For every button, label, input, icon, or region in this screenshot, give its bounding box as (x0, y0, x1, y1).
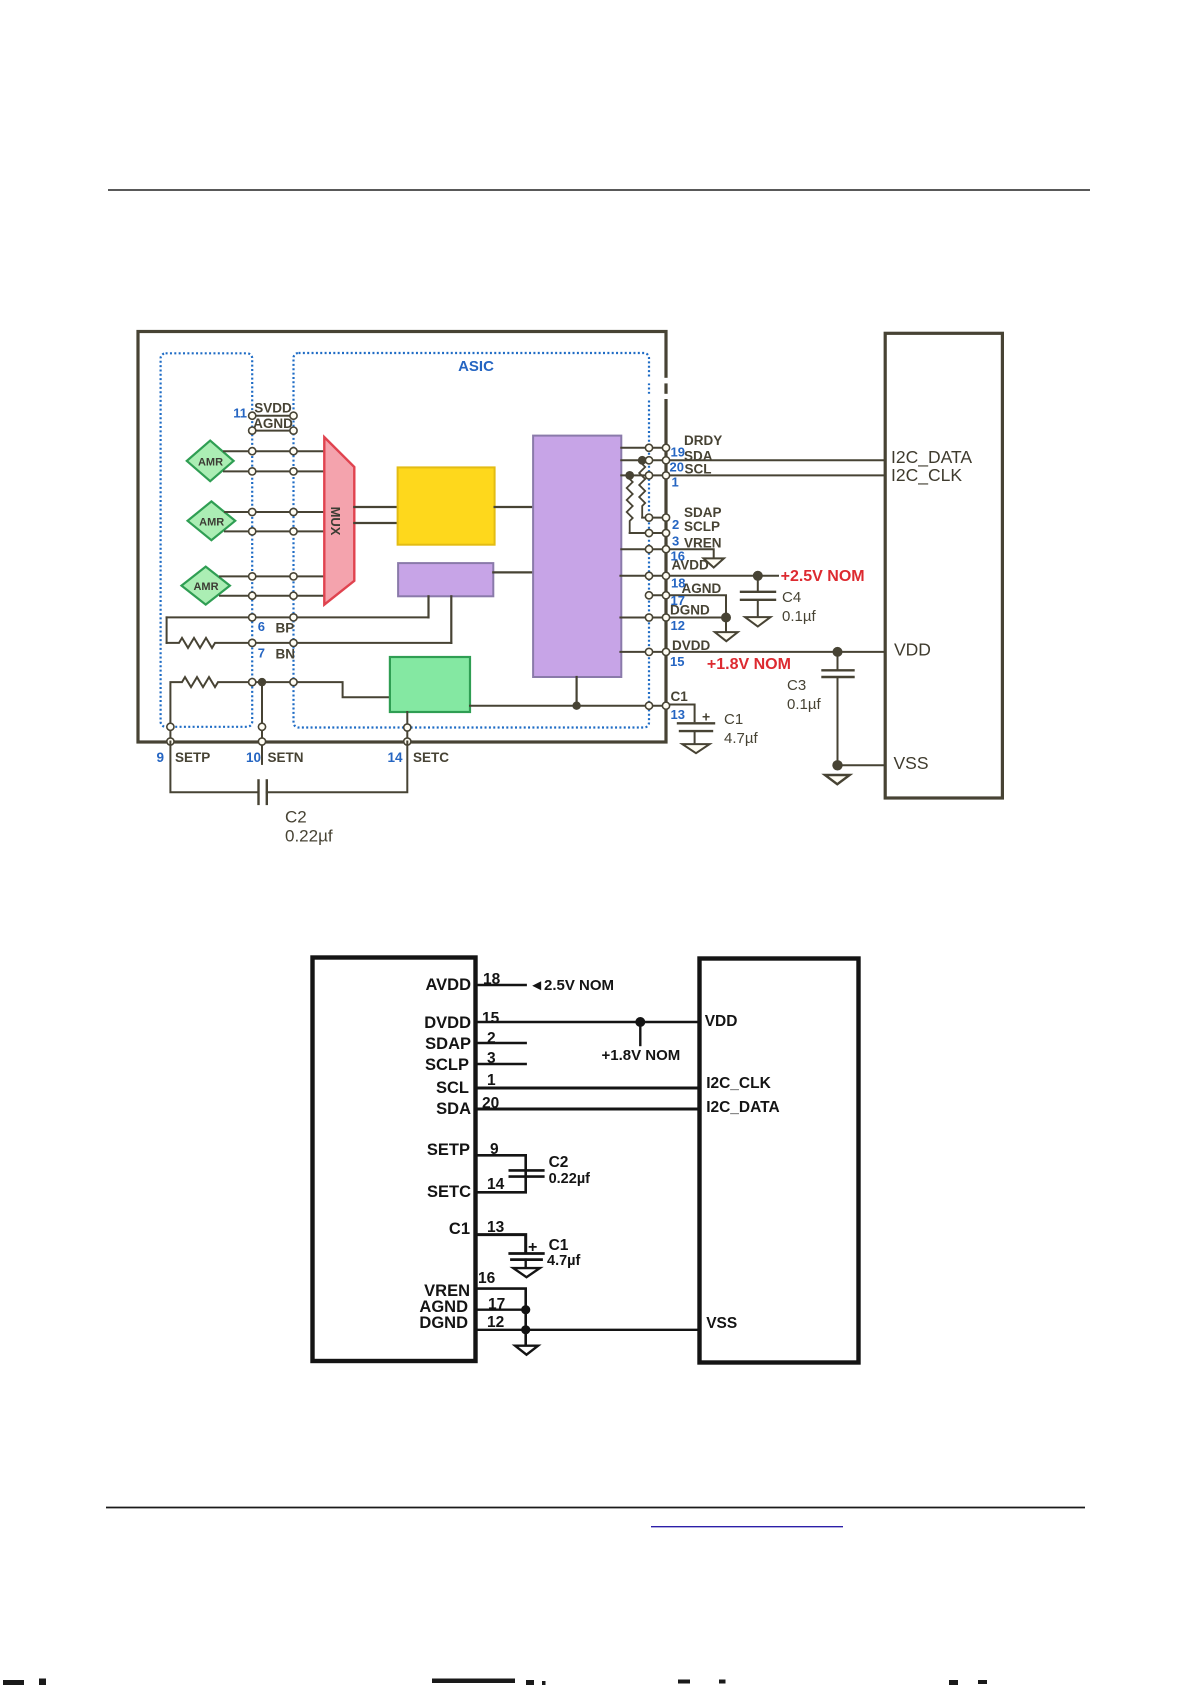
ground symbol C1 (513, 1268, 540, 1277)
bottom horizontal rule (106, 1507, 1085, 1509)
svg-text:16: 16 (671, 549, 685, 564)
svg-text:1: 1 (672, 475, 679, 490)
junction circles on SET lines (167, 679, 297, 746)
wire green block to SETC pin (406, 712, 408, 742)
svg-text:1: 1 (487, 1072, 496, 1089)
wire VREN pin 16 (476, 1289, 526, 1346)
sensor block dashed box (161, 353, 253, 727)
U1 pin number labels (478, 971, 505, 1331)
svg-text:AGND: AGND (682, 581, 722, 596)
wire DVDD to VDD (620, 651, 885, 653)
svg-text:3: 3 (487, 1050, 496, 1067)
top horizontal rule (108, 189, 1090, 191)
svg-text:18: 18 (483, 971, 501, 988)
wire SDA pin 20 to I2C_DATA (476, 1108, 700, 1111)
capacitor C2 plates (510, 1169, 544, 1172)
svg-text:I2C_DATA: I2C_DATA (706, 1099, 780, 1116)
svg-text:I2C_CLK: I2C_CLK (706, 1075, 771, 1092)
wire SDAP (642, 517, 666, 519)
svg-text:0.22µf: 0.22µf (549, 1171, 591, 1187)
wires MUX to signal-processing block (354, 506, 397, 508)
svg-text:14: 14 (387, 750, 403, 765)
ground symbol C1 (682, 744, 709, 753)
svg-text:VDD: VDD (705, 1013, 738, 1030)
capacitor C1 plates (510, 1252, 544, 1255)
junction circles on right pin column (645, 444, 669, 709)
AMR sensor 2 (188, 501, 236, 540)
svg-text:DVDD: DVDD (424, 1014, 471, 1032)
svg-text:AMR: AMR (198, 456, 223, 468)
svg-text:16: 16 (478, 1270, 496, 1287)
ground symbol VREN (704, 558, 724, 567)
svg-text:C1: C1 (724, 711, 743, 728)
svg-text:12: 12 (487, 1314, 504, 1331)
wire DRDY (621, 447, 666, 449)
svg-text:SETP: SETP (175, 750, 210, 765)
right pin number labels (670, 445, 686, 723)
svg-text:14: 14 (487, 1176, 505, 1193)
svg-text:SDAP: SDAP (425, 1035, 471, 1053)
svg-text:MUX: MUX (328, 507, 343, 536)
AMR sensor 3 (182, 567, 230, 605)
right pin name labels (670, 433, 722, 704)
svg-text:18: 18 (671, 576, 685, 591)
wire BN line with resistor (167, 638, 452, 648)
svg-text:DVDD: DVDD (672, 638, 711, 653)
svg-text:2: 2 (487, 1030, 496, 1047)
svg-text:SETC: SETC (413, 750, 449, 765)
svg-text:SCL: SCL (685, 462, 712, 477)
wire SDA to I2C_DATA (621, 459, 885, 461)
svg-text:BN: BN (276, 647, 296, 662)
svg-text:+2.5V NOM: +2.5V NOM (781, 568, 865, 585)
svg-text:C4: C4 (782, 589, 801, 606)
svg-text:VDD: VDD (894, 640, 931, 660)
svg-text:C1: C1 (671, 689, 689, 704)
wire AVDD (620, 575, 778, 577)
junction dot DVDD (833, 647, 843, 657)
svg-text:C1: C1 (549, 1237, 569, 1254)
svg-text:4.7µf: 4.7µf (724, 730, 758, 747)
wires AMR2 to MUX (225, 511, 324, 513)
svg-text:SETC: SETC (427, 1183, 471, 1201)
svg-text:11: 11 (233, 406, 247, 421)
junction circles on SVDD/AGND (249, 412, 298, 434)
wire SCLP pin 3 (476, 1063, 526, 1065)
ground symbol VSS (825, 775, 850, 784)
svg-text:3: 3 (672, 534, 679, 549)
svg-text:9: 9 (490, 1141, 499, 1158)
capacitor C4 (757, 576, 759, 591)
svg-text:SCLP: SCLP (684, 519, 720, 534)
svg-text:AMR: AMR (193, 581, 218, 593)
svg-text:15: 15 (482, 1010, 500, 1027)
svg-text:BP: BP (276, 621, 295, 636)
svg-text:C2: C2 (285, 808, 307, 827)
svg-text:17: 17 (671, 593, 685, 608)
junction dot +1.8V tap (635, 1017, 645, 1027)
wire AGND pin 17 (476, 1308, 526, 1310)
U1 pin name labels (419, 976, 471, 1332)
svg-text:AGND: AGND (253, 416, 293, 431)
wire VREN (621, 549, 713, 558)
svg-text:SDAP: SDAP (684, 505, 722, 520)
svg-text:I2C_CLK: I2C_CLK (891, 465, 962, 486)
junction dot SDA (638, 456, 647, 465)
capacitor C2 plates (257, 780, 259, 804)
pull-up resistor on SCL (627, 475, 633, 533)
junction dot AGND (521, 1305, 530, 1314)
svg-text:20: 20 (670, 460, 684, 475)
wire small purple to digital core (493, 571, 533, 573)
wire DGND pin 12 to VSS (476, 1329, 700, 1331)
svg-text:+1.8V NOM: +1.8V NOM (602, 1047, 681, 1064)
svg-text:DRDY: DRDY (684, 433, 722, 448)
junction dot SCL (625, 471, 634, 480)
hyperlink underline (651, 1526, 843, 1528)
svg-text:+1.8V NOM: +1.8V NOM (707, 656, 791, 673)
svg-text:4.7µf: 4.7µf (547, 1253, 581, 1269)
svg-text:SETP: SETP (427, 1141, 470, 1159)
svg-text:0.22µf: 0.22µf (285, 827, 333, 846)
multiplexer MUX (324, 437, 354, 604)
svg-text:SDA: SDA (436, 1100, 471, 1118)
ASIC dashed box (294, 353, 650, 728)
node SVDD (252, 415, 293, 417)
svg-text:10: 10 (246, 750, 261, 765)
svg-text:6: 6 (258, 619, 265, 634)
svg-text:0.1µf: 0.1µf (782, 608, 816, 625)
svg-text:15: 15 (670, 654, 684, 669)
capacitor C3 (837, 652, 839, 669)
break marks on right edge of frame (643, 378, 673, 384)
svg-text:SVDD: SVDD (254, 401, 292, 416)
svg-text:AVDD: AVDD (425, 976, 471, 994)
wire VSS (838, 764, 886, 766)
svg-text:9: 9 (156, 750, 164, 765)
svg-text:VSS: VSS (894, 753, 929, 773)
junction dot DGND (721, 613, 731, 623)
wire BP line (167, 616, 429, 618)
node AGND (252, 430, 293, 432)
junction circles on BP/BN (249, 614, 298, 647)
svg-text:17: 17 (488, 1296, 505, 1313)
wire SCL pin 1 to I2C_CLK (476, 1087, 700, 1090)
svg-text:◄2.5V NOM: ◄2.5V NOM (529, 977, 614, 994)
svg-text:SCL: SCL (436, 1079, 469, 1097)
junction dot VSS (832, 760, 842, 770)
junction dot DGND (521, 1325, 530, 1334)
wire digital core bottom to C1 line (575, 677, 577, 706)
control block (small purple) (398, 563, 493, 596)
svg-text:12: 12 (671, 618, 685, 633)
signal processing block (yellow) (398, 467, 495, 544)
wire SETN stub (261, 682, 263, 764)
digital core block (large purple) (533, 436, 621, 677)
wire SETP line with resistor (170, 677, 390, 741)
junction dot AVDD (753, 571, 763, 581)
svg-text:0.1µf: 0.1µf (787, 696, 821, 713)
svg-text:SETN: SETN (268, 750, 304, 765)
ground symbol DGND (715, 632, 738, 641)
wire yellow block to digital core (495, 506, 533, 508)
svg-text:C1: C1 (449, 1220, 470, 1238)
outer frame of sensor module (schematic 1) (138, 332, 666, 743)
wire SCLP (630, 532, 666, 534)
svg-text:20: 20 (482, 1095, 499, 1112)
AMR sensor 1 (187, 441, 234, 482)
host box pin labels (705, 1013, 780, 1332)
wire SCL to I2C_CLK (621, 474, 885, 476)
junction circles on SETC stub (404, 724, 411, 745)
I2C box labels (891, 447, 972, 773)
svg-text:19: 19 (671, 445, 685, 460)
ground symbol C4 (745, 617, 771, 626)
junction dot SETN (258, 678, 266, 686)
svg-text:C3: C3 (787, 677, 806, 694)
capacitor C2 loop wires (170, 742, 258, 793)
svg-text:VSS: VSS (706, 1315, 737, 1332)
I2C master box (885, 333, 1002, 798)
svg-text:7: 7 (258, 646, 265, 661)
svg-text:ASIC: ASIC (458, 358, 494, 375)
junction circles on AMR wires (249, 448, 298, 600)
wires AMR3 to MUX (220, 575, 324, 577)
pull-up resistor on SDA (639, 460, 645, 517)
resistor bridge BP-BN vertical (166, 617, 168, 643)
wire AVDD pin 18 (476, 984, 526, 986)
wire AGND (649, 595, 726, 617)
wire small purple to BP line (427, 596, 429, 617)
capacitor C1 external (666, 705, 695, 722)
svg-text:13: 13 (487, 1219, 505, 1236)
wire C1 pin 13 (476, 1235, 526, 1252)
svg-text:DGND: DGND (419, 1314, 468, 1332)
schematic 2: sensor IC box U1 (313, 958, 476, 1362)
junction dot on C1 wire (572, 702, 580, 710)
ground symbol DGND (515, 1346, 538, 1355)
svg-text:13: 13 (671, 707, 685, 722)
svg-text:VREN: VREN (684, 536, 722, 551)
charge pump block (green) (390, 657, 470, 712)
svg-text:2: 2 (672, 517, 679, 532)
cut-off text tops at page bottom (3, 1679, 987, 1685)
svg-text:SCLP: SCLP (425, 1056, 469, 1074)
wire green block to C1 pin 13 (470, 705, 666, 707)
wires AMR1 to MUX (220, 451, 324, 596)
schematic 2: host IC box (700, 959, 859, 1363)
wire DGND (620, 617, 726, 619)
wire DVDD pin 15 to VDD (476, 1021, 700, 1023)
wire SDAP pin 2 (476, 1042, 526, 1044)
wire SETP pin 9 to C2 (476, 1155, 526, 1192)
wire small purple to BN line (450, 596, 452, 643)
svg-text:C2: C2 (549, 1154, 569, 1171)
svg-text:AMR: AMR (199, 516, 224, 528)
